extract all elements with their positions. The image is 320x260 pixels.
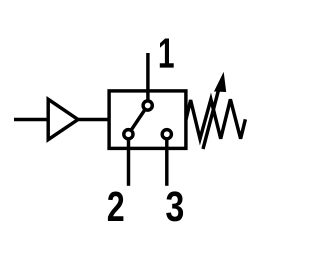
spring: adjustable return spring zigzag <box>186 99 245 139</box>
wire: port 2 stub (bottom left) <box>127 134 130 186</box>
wire: input line to pilot <box>14 118 48 121</box>
node: seat circle port 2 <box>124 130 133 139</box>
node: seat circle port 1 <box>143 101 152 110</box>
label: port 1 <box>160 39 174 68</box>
node: seat circle port 3 <box>162 130 171 139</box>
label: port 3 <box>166 191 183 221</box>
wire: port 1 stub (top) <box>146 53 149 106</box>
label: port 2 <box>108 192 124 222</box>
arrow: adjustment arrow shaft <box>203 89 219 149</box>
valve body (3/2 valve box) <box>109 91 186 148</box>
pilot amplifier triangle <box>48 99 78 139</box>
wire: port 3 stub (bottom right) <box>165 134 168 186</box>
wire: internal flow path (diagonal) <box>128 106 147 135</box>
arrow: adjustment arrowhead <box>214 72 226 92</box>
wire: pilot output to valve body <box>78 118 109 121</box>
